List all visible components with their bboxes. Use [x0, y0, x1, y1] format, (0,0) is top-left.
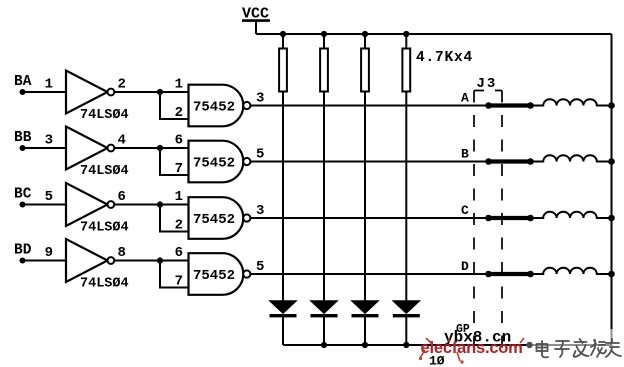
junction at inverter output row D	[157, 257, 163, 263]
svg-text:BB: BB	[14, 130, 32, 146]
connector J3 dashed outline left	[473, 91, 475, 359]
diode D3	[352, 301, 379, 318]
svg-text:7: 7	[175, 161, 183, 177]
wire inverter output pin 6 to junction	[114, 189, 160, 205]
junction bottom rail column 2	[321, 342, 327, 348]
wire gate output pin 3 to connector row A	[251, 91, 489, 107]
connector J3 pin bar row A	[485, 102, 534, 109]
svg-text:74LSØ4: 74LSØ4	[80, 221, 129, 236]
junction at inverter output row B	[157, 145, 163, 151]
junction winding C to common vertical	[608, 215, 615, 222]
svg-text:A: A	[461, 91, 469, 106]
wire BA input to inverter, pin 1	[23, 77, 67, 93]
wire gate output pin 5 to connector row B	[251, 147, 489, 163]
svg-text:5: 5	[256, 147, 264, 163]
diode D4	[393, 301, 420, 318]
svg-text:74LSØ4: 74LSØ4	[80, 277, 129, 292]
wire diode D1 to bottom rail	[282, 317, 284, 345]
connector J3 pin bar row C	[485, 215, 534, 222]
node BC (input terminal)	[14, 187, 32, 208]
wire resistor 3 down to diode D3	[364, 92, 366, 302]
svg-text:5: 5	[45, 189, 53, 205]
wire VCC stub	[255, 22, 257, 35]
gray overlay on bottom rail right part	[527, 329, 612, 345]
junction winding A to common vertical	[608, 102, 615, 109]
wire junction to gate top input pin 6	[160, 245, 189, 261]
wire resistor 4 down to diode D4	[405, 92, 407, 302]
svg-text:2: 2	[118, 77, 126, 93]
svg-text:74LSØ4: 74LSØ4	[80, 164, 129, 179]
svg-text:3: 3	[256, 203, 264, 219]
connector J3 dashed outline right	[501, 91, 503, 359]
wire BD input to inverter, pin 9	[23, 245, 67, 261]
wire junction down and to gate bottom input pin 7	[160, 261, 189, 290]
svg-text:BC: BC	[14, 187, 32, 203]
svg-text:3: 3	[256, 91, 264, 107]
wire inverter output pin 2 to junction	[114, 77, 160, 93]
connector J3 pin bar row B	[485, 158, 534, 165]
power symbol VCC	[242, 6, 270, 23]
node BA (input terminal)	[14, 74, 32, 95]
svg-text:B: B	[461, 147, 469, 162]
svg-text:75452: 75452	[193, 156, 235, 172]
wire inverter output pin 8 to junction	[114, 245, 160, 261]
svg-text:4.7Kx4: 4.7Kx4	[416, 50, 473, 66]
junction winding B to common vertical	[608, 158, 615, 165]
resistor R1 4.7K	[279, 49, 287, 92]
svg-text:1: 1	[45, 77, 53, 93]
svg-text:elecfans.com: elecfans.com	[421, 339, 523, 357]
wire diode D2 to bottom rail	[323, 317, 325, 345]
wire resistor 1 down to diode D1	[282, 92, 284, 302]
wire junction to gate top input pin 6	[160, 133, 189, 149]
svg-text:8: 8	[118, 245, 126, 261]
svg-text:4: 4	[118, 133, 126, 149]
wire resistor 2 down to diode D2	[323, 92, 325, 302]
svg-text:1: 1	[175, 77, 183, 93]
junction top rail / resistor 3	[362, 31, 368, 37]
svg-text:D: D	[461, 259, 469, 274]
node BB (input terminal)	[14, 130, 32, 151]
wire junction to gate top input pin 1	[160, 189, 189, 205]
svg-text:C: C	[461, 203, 469, 218]
svg-text:75452: 75452	[193, 100, 235, 116]
wire rail to resistor 1	[282, 34, 284, 49]
svg-text:2: 2	[175, 218, 183, 234]
junction winding D to common vertical	[608, 271, 615, 278]
wire BC input to inverter, pin 5	[23, 189, 67, 205]
junction bottom rail column 3	[362, 342, 368, 348]
inductor L4 motor winding D	[531, 268, 612, 274]
wire gate output pin 3 to connector row C	[251, 203, 489, 219]
svg-text:9: 9	[45, 245, 53, 261]
junction top rail / resistor 1	[280, 31, 286, 37]
resistor R4 4.7K	[402, 49, 410, 92]
svg-text:2: 2	[175, 105, 183, 121]
junction top rail / resistor 4	[403, 31, 409, 37]
wire rail to resistor 3	[364, 34, 366, 49]
junction top rail / resistor 2	[321, 31, 327, 37]
svg-text:6: 6	[175, 133, 183, 149]
driver gate 75452 (row A)	[189, 85, 251, 127]
wire diode D4 to bottom rail	[405, 317, 407, 345]
svg-text:75452: 75452	[193, 212, 235, 228]
svg-text:75452: 75452	[193, 268, 235, 284]
wire gate output pin 5 to connector row D	[251, 259, 489, 275]
watermark elecfans.com	[419, 338, 533, 364]
svg-text:J3: J3	[477, 76, 498, 92]
driver gate 75452 (row D)	[189, 253, 251, 295]
wire junction down and to gate bottom input pin 2	[160, 205, 189, 234]
inductor L3 motor winding C	[531, 212, 612, 218]
resistor R3 4.7K	[361, 49, 369, 92]
connector J3 pin bar row D	[485, 271, 534, 278]
svg-text:BD: BD	[14, 243, 32, 259]
driver gate 75452 (row C)	[189, 197, 251, 239]
node BD (input terminal)	[14, 243, 32, 264]
watermark chinese text (dian zi fa shao you)	[537, 339, 622, 357]
driver gate 75452 (row B)	[189, 141, 251, 183]
junction bottom rail column 4	[403, 342, 409, 348]
inverter U1C 74LS04	[66, 183, 129, 236]
inverter U1B 74LS04	[66, 127, 129, 180]
junction at inverter output row C	[157, 201, 163, 207]
wire inverter output pin 4 to junction	[114, 133, 160, 149]
diode D2	[311, 301, 338, 318]
resistor R2 4.7K	[320, 49, 328, 92]
svg-text:1: 1	[175, 189, 183, 205]
svg-text:74LSØ4: 74LSØ4	[80, 108, 129, 123]
wire rail to resistor 2	[323, 34, 325, 49]
svg-text:5: 5	[256, 259, 264, 275]
junction at inverter output row A	[157, 89, 163, 95]
wire diode D3 to bottom rail	[364, 317, 366, 345]
svg-text:7: 7	[175, 274, 183, 290]
svg-text:6: 6	[118, 189, 126, 205]
svg-text:6: 6	[175, 245, 183, 261]
wire bottom rail	[283, 344, 612, 346]
inverter U1A 74LS04	[66, 71, 129, 124]
inductor L1 motor winding A	[531, 99, 612, 105]
inverter U1D 74LS04	[66, 239, 129, 292]
wire junction down and to gate bottom input pin 2	[160, 92, 189, 121]
wire junction to gate top input pin 1	[160, 77, 189, 93]
wire rail to resistor 4	[405, 34, 407, 49]
wire right vertical (winding common to VCC)	[611, 34, 613, 345]
svg-text:BA: BA	[14, 74, 32, 90]
diode D1	[270, 301, 297, 318]
wire VCC top rail	[256, 33, 612, 35]
svg-text:3: 3	[45, 133, 53, 149]
wire BB input to inverter, pin 3	[23, 133, 67, 149]
connector J3 dashed outline top	[474, 90, 502, 92]
inductor L2 motor winding B	[531, 155, 612, 161]
wire junction down and to gate bottom input pin 7	[160, 148, 189, 177]
